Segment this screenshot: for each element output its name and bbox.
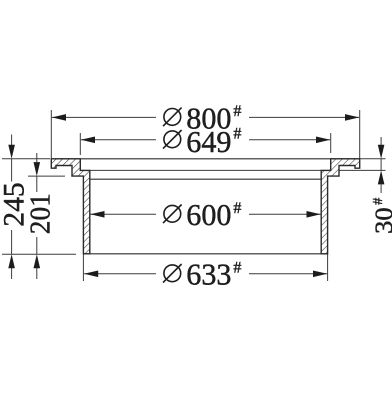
svg-text:30: 30: [371, 207, 392, 234]
svg-text:#: #: [233, 125, 241, 142]
svg-text:600: 600: [186, 197, 231, 232]
svg-text:#: #: [233, 103, 241, 120]
svg-text:649: 649: [186, 124, 231, 159]
svg-text:#: #: [371, 198, 386, 205]
svg-text:#: #: [233, 259, 241, 276]
svg-text:201: 201: [24, 193, 56, 234]
svg-text:#: #: [233, 200, 241, 217]
svg-text:633: 633: [186, 257, 231, 292]
